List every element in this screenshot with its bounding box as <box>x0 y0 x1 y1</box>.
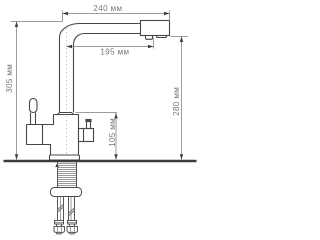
pipe base flange <box>58 113 74 115</box>
left handle stem <box>31 113 36 125</box>
hose inner lines <box>61 197 72 220</box>
dimension extension lines <box>11 11 189 160</box>
ext: vertical right for 240 <box>169 11 171 21</box>
svg-text:105 мм: 105 мм <box>108 118 117 147</box>
ext: vertical left for 240 <box>62 11 64 22</box>
left handle knob capsule <box>30 99 38 113</box>
hoses <box>58 197 75 221</box>
svg-text:280 мм: 280 мм <box>172 87 181 116</box>
dimension arrows <box>15 12 183 160</box>
ext: tick for 195 <box>153 38 155 49</box>
dim line 280 <box>181 37 183 160</box>
base plate <box>50 155 80 160</box>
right valve block <box>79 129 94 142</box>
ext: top-left horizontal for 305 <box>11 21 63 23</box>
aerator nozzle left tab <box>146 36 153 40</box>
ext: horizontal right for 280 <box>171 36 189 38</box>
right valve stem cap <box>86 120 91 122</box>
hose 2 fitting <box>67 221 78 234</box>
nut stadium <box>51 188 82 197</box>
dim line 240 <box>63 13 170 15</box>
ext: horizontal for 105 <box>76 112 118 114</box>
spout pipe outline <box>60 24 141 113</box>
right valve stem <box>87 122 91 129</box>
datum triangle below counter <box>55 163 59 167</box>
fitting seam lines <box>55 222 76 231</box>
svg-text:240 мм: 240 мм <box>93 4 122 13</box>
hose 1 fitting <box>54 221 65 234</box>
counter surface line <box>4 160 197 162</box>
dim line 195 <box>67 46 154 48</box>
hose hatch stripes <box>58 204 75 216</box>
threaded shank below counter <box>58 162 77 187</box>
dim line 305 <box>16 22 18 160</box>
svg-text:195 мм: 195 мм <box>100 48 129 57</box>
aerator right tab <box>157 36 167 38</box>
svg-text:305 мм: 305 мм <box>5 64 14 93</box>
dim line 105 <box>115 113 117 160</box>
faucet body <box>27 115 79 156</box>
spout head <box>141 21 170 36</box>
wire: dashed vertical centerline of riser pipe <box>66 28 68 156</box>
